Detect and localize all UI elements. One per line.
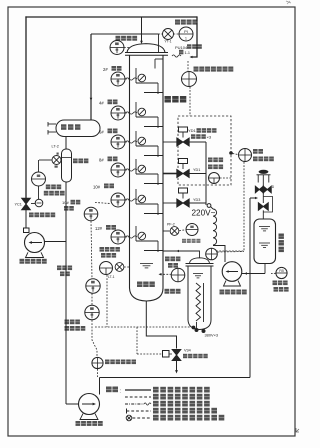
label 进料流 量给定 (273, 281, 278, 286)
valve V34 body (vertical) (172, 349, 181, 360)
label 电动调节阀 (29, 213, 34, 218)
label 说明: (106, 387, 112, 393)
wire to reflux level controller (38, 160, 40, 172)
preheater coil winding (211, 207, 214, 210)
condenser nozzle stubs (48, 123, 56, 125)
wire dash chain down 3 (92, 320, 97, 358)
tray unit 10# in column (135, 189, 137, 204)
wire feed manifold x=206 (205, 142, 207, 205)
wire coil bottom to feed pump (213, 246, 225, 263)
legend row 3 dash-dot squiggle = RTD sensor (125, 403, 144, 405)
wire dash from PU104 down to TI bubble (187, 61, 189, 71)
temperature sensor element 4# (circle-slash) (138, 108, 146, 116)
instrument thyristor power controller bubble (86, 279, 100, 293)
outlet pump base (80, 414, 98, 420)
sensor lead squiggle through wall 12# (126, 236, 137, 238)
label 出口计量泵 (76, 421, 81, 426)
instrument TI 10#板温 bubble (111, 193, 125, 207)
wire feed pump riser to coil (224, 246, 226, 263)
sensor lead squiggle through wall 4# (126, 112, 137, 114)
feed pump base (224, 281, 241, 286)
instrument kettle pressure bubble (186, 224, 198, 236)
instrument feed flow FI bubble (276, 267, 287, 278)
wire dashes dome to YT-1 to PI (159, 33, 163, 35)
label 进料泵 变频器 (208, 158, 213, 163)
svg-text:1: 1 (185, 37, 187, 41)
manual valve pair A at tank top (255, 186, 263, 193)
svg-text:PF-2: PF-2 (167, 223, 175, 227)
wire valve B to tank (262, 210, 264, 219)
wire kettle drain (146, 301, 176, 349)
wire dash kettle wall to temperature bubble with arrow (160, 273, 171, 275)
solenoid valve V34 coil box (163, 351, 170, 358)
label 进料计量泵 (220, 290, 225, 295)
feed funnel cup (257, 174, 271, 176)
control valve YC1 (vertical bowtie) (22, 198, 31, 210)
solenoid valve YD2 body (177, 170, 189, 178)
svg-text:V34: V34 (184, 349, 191, 353)
temperature sensor element 10# (circle-slash) (138, 195, 146, 203)
feed funnel cap at tank top (259, 170, 269, 174)
wire condenser to reflux drum (65, 137, 67, 150)
instrument kettle level controller bubble (100, 262, 113, 275)
sensor lead squiggle through wall 2# (126, 78, 137, 80)
squiggle mark near arrow (172, 55, 181, 57)
label 进样 选择开关 (253, 149, 258, 154)
instrument TI tower-top temperature bubble (110, 41, 124, 55)
feed tank level marks (259, 226, 270, 228)
feed tank V3 shell (254, 219, 276, 264)
label 精馏塔 (column name, bold) (165, 96, 171, 103)
heater terminals (195, 329, 198, 332)
temperature sensor element 6# (circle-slash) (138, 137, 146, 145)
instrument feed selector switch bubble (239, 149, 252, 162)
temperature sensor element 8# (circle-slash) (138, 165, 146, 173)
wire dash chain down (91, 221, 92, 279)
legend row 4 tap symbol (126, 409, 128, 414)
column C1 dome (127, 44, 165, 53)
wire dash PF-2 to pressure bubble (179, 229, 185, 232)
wire dash FI to feed line (271, 272, 276, 274)
instrument 10# temperature controller bubble (84, 207, 98, 221)
wire tank drain to feed pump (264, 264, 266, 274)
wire dash to V34 coil (136, 327, 138, 354)
wire dash controller to 10# bubble (95, 203, 111, 204)
instrument outlet flow setpoint bubble (92, 357, 103, 368)
solenoid valve YD3 body (177, 199, 189, 207)
wire valve YD3 to manifold (189, 202, 206, 204)
kettle liquid level mark (140, 263, 153, 265)
svg-text:8#: 8# (99, 158, 104, 163)
instrument TI 6#板温 bubble (111, 135, 125, 149)
wire between tank valves (262, 193, 264, 203)
reflux pump inlet box (24, 228, 30, 233)
label 反应釜 (in kettle) (137, 282, 142, 288)
tray unit 12# in column (135, 226, 137, 241)
dashed group box for feed solenoid valves (178, 116, 231, 185)
reboiler vapor return wire to column (163, 251, 200, 258)
svg-text:YD1: YD1 (193, 168, 200, 172)
legend row 2 dashed = instrument signal (125, 396, 151, 398)
wire top-right drop x=197 with arrow (191, 16, 197, 57)
solenoid valve YD3 coil box (179, 188, 188, 193)
wire valve YD2 to manifold (189, 173, 206, 175)
manual valve B (258, 203, 268, 211)
transmitter LT-2 (circle-X) (52, 156, 61, 165)
label 原料槽 (vertical) (279, 234, 284, 239)
wire recycle into tank valves with arrow (250, 197, 257, 199)
wire dash level controller down (106, 275, 108, 327)
wire dash to selector switch (233, 154, 239, 155)
svg-text:10#: 10# (93, 185, 101, 190)
label 三相可 控硅 (57, 266, 62, 271)
wire dash LT-1 to kettle wall (124, 266, 130, 268)
label 回流罐 液位控制 (46, 185, 51, 190)
tray unit 8# in column (135, 159, 137, 174)
wire product bottom bus y=377.5 (100, 377, 251, 379)
svg-text:YD1: YD1 (188, 128, 197, 133)
svg-text:×3: ×3 (207, 135, 212, 140)
column C1 kettle bottom head (130, 288, 164, 301)
svg-text:2#: 2# (103, 67, 108, 72)
svg-text:12#: 12# (95, 226, 103, 231)
svg-text:380V×3: 380V×3 (205, 333, 219, 338)
column C1 left wall (129, 55, 131, 288)
scan speck top-right (286, 1, 291, 4)
label 再沸器 (reboiler name) (165, 289, 170, 294)
wire dash heater power line to reboiler terminals (95, 326, 194, 328)
junction circle at manifold bottom (207, 204, 211, 208)
column C1 right wall (162, 55, 164, 288)
wire dash reboiler bubble right (218, 251, 245, 254)
wire column vapor line to condenser (91, 33, 159, 35)
wire dash chain down 2 (91, 293, 93, 305)
solenoid valve YD1 coil box (179, 127, 188, 132)
instrument TI 2#板温 bubble (111, 72, 125, 86)
transmitter PF-2 (circle-X) (170, 227, 179, 236)
reboiler E2 dome and flange (190, 258, 210, 264)
svg-text::: : (120, 389, 121, 395)
svg-text:YT-1: YT-1 (164, 40, 171, 44)
instrument feed-pump VFD bubble (209, 173, 220, 184)
solenoid valve YD2 coil box (179, 159, 188, 164)
label 恒压控制 small (182, 239, 186, 243)
instrument TI 4#板温 bubble (111, 106, 125, 120)
label 回流液塔顶温度 (194, 67, 199, 72)
reboiler level mark (193, 273, 203, 275)
instrument reboiler heat power bubble (85, 305, 99, 319)
wire positioner to valve YC1 (31, 203, 35, 205)
label 冷凝器 (in condenser) (61, 124, 66, 130)
wire reflux return drop x=141.5 with arrow into dome (141, 17, 143, 41)
reflux pump base (26, 252, 44, 257)
bypass loop (263, 197, 272, 213)
wire valve YD1 to manifold (189, 141, 206, 143)
instrument reboiler temperature bubble (206, 248, 218, 260)
svg-text:YD3: YD3 (193, 198, 200, 202)
instrument TI 12#板温 bubble (111, 230, 125, 244)
reflux drum V2 shell (62, 149, 72, 182)
page corner mark bottom-right (296, 428, 299, 432)
reflux pump P1 (回流离心泵) (25, 233, 45, 253)
wire dash TI bubble down to solenoid group box (189, 87, 191, 116)
temperature sensor element 2# (circle-slash) (138, 74, 146, 82)
wire YC1 down to reflux pump (25, 210, 27, 228)
svg-text:PU104: PU104 (175, 45, 188, 50)
wire outlet pump discharge riser (99, 378, 101, 395)
sensor lead squiggle through wall 6# (126, 141, 137, 143)
svg-text:FI5: FI5 (279, 269, 284, 273)
instrument reflux drum level controller bubble (32, 172, 46, 186)
label 塔顶压力 (175, 20, 180, 25)
instrument TI 8#板温 bubble (111, 163, 125, 177)
sensor lead squiggle through wall 8# (126, 169, 137, 171)
instrument TI reflux top temperature bubble (182, 72, 197, 87)
wire column to valve YD1 (163, 141, 177, 143)
svg-text:LT-1: LT-1 (108, 275, 115, 279)
tray unit 2# in column (135, 68, 137, 83)
condenser E1 shell (56, 120, 100, 137)
valve positioner circle (35, 199, 43, 207)
wire dash VFD to group box edge (220, 177, 231, 179)
svg-text:1-1: 1-1 (185, 51, 191, 55)
node pressure tap stub at dome (158, 34, 160, 53)
label 塔顶温度 (116, 36, 121, 41)
legend row 5 transmitter symbol (126, 415, 132, 421)
column top tray downcomer (155, 58, 163, 60)
reboiler E2 bottom (188, 320, 211, 330)
label 再沸用 加热功率 (65, 320, 70, 325)
reflux drum weld line (62, 157, 72, 159)
wire dash setpoint to product line (97, 369, 99, 377)
solenoid valve YD1 body (177, 138, 189, 146)
wire reflux drum down to pump suction (65, 182, 67, 242)
instrument PI tower pressure bubble (179, 27, 193, 41)
svg-text:220V~: 220V~ (192, 209, 216, 218)
wire top reflux bus y=17 (25, 16, 197, 18)
wire dash selector switch down and left (243, 162, 245, 251)
svg-text:LT-2: LT-2 (52, 145, 59, 149)
outlet pump P3 (出口计量泵) (79, 394, 100, 415)
column C1 flange lines (125, 52, 168, 54)
tray unit 6# in column (135, 131, 137, 146)
transmitter LT-1 (circle-X) (115, 263, 124, 272)
transmitter YT-1 (circle-X) (163, 29, 174, 40)
legend row 1 solid line = process piping (125, 389, 151, 391)
wire V34 outlet arrow down (176, 361, 178, 371)
temperature sensor element 12# (circle-slash) (138, 232, 146, 240)
reboiler E2 shell walls (187, 266, 189, 320)
svg-text:PI: PI (184, 29, 188, 34)
heater element zigzag in reboiler (196, 283, 201, 321)
wire tap column to PF-2 (163, 230, 170, 232)
junction dot on group box (230, 152, 233, 155)
sensor lead squiggle through wall 10# (126, 199, 137, 201)
label 回流离心泵 (20, 259, 25, 264)
svg-text:4#: 4# (99, 101, 104, 106)
label 出口流量给定 (105, 360, 110, 365)
wire controller to valve positioner (38, 186, 40, 199)
feed pump P2 (进料计量泵) (222, 262, 242, 282)
wire column to valve YD3 (163, 202, 177, 204)
instrument kettle temperature bubble (171, 268, 185, 282)
wire column to valve YD2 (163, 173, 177, 175)
wire product line x=66 down (65, 242, 67, 405)
label 反应釜液位控制 with LT-1 (100, 247, 105, 252)
wire left reflux drop x=26 (25, 16, 27, 198)
label 反应釜温度 (165, 257, 170, 262)
tray unit 4# in column (135, 102, 137, 117)
svg-text:YC1: YC1 (15, 203, 22, 207)
label 回流罐 (73, 159, 78, 164)
wire recycle riser x=250 (249, 198, 251, 378)
